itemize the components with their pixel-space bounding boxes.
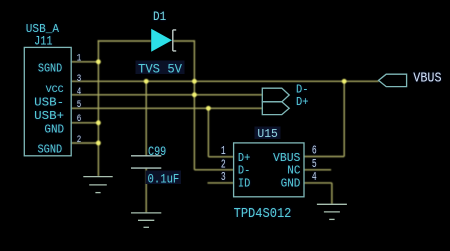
- node pin2/bus junction: [96, 141, 101, 146]
- svg-text:1: 1: [221, 144, 226, 158]
- svg-text:J11: J11: [34, 35, 53, 49]
- svg-text:USB-: USB-: [34, 96, 64, 109]
- wire anode feed horizontal: [98, 40, 152, 42]
- connector J11 box: [24, 47, 71, 155]
- svg-text:2: 2: [77, 135, 82, 146]
- svg-text:ID: ID: [238, 176, 250, 190]
- svg-text:D+: D+: [296, 96, 309, 109]
- wire U15 pin6 vertical: [343, 81, 345, 156]
- node C99/VBUS junction: [144, 79, 149, 84]
- svg-text:NC: NC: [287, 163, 300, 177]
- svg-text:4: 4: [77, 87, 82, 98]
- wire U15 pin4 ground vertical: [331, 183, 333, 204]
- wire U15 pin6 stub: [304, 156, 344, 158]
- capacitor C99: [131, 156, 161, 168]
- svg-text:USB+: USB+: [34, 110, 64, 123]
- wire D+ net horizontal: [71, 107, 262, 109]
- svg-text:1: 1: [77, 54, 82, 65]
- wire D- net horizontal: [71, 94, 262, 96]
- svg-text:6: 6: [77, 114, 82, 125]
- svg-text:GND: GND: [44, 123, 64, 137]
- svg-text:6: 6: [312, 144, 317, 158]
- label TVS 5V: [136, 61, 185, 75]
- wire J11 pin1 stub: [71, 61, 98, 63]
- wire U15 pin1 vertical: [207, 108, 209, 157]
- ground (under connector): [83, 177, 112, 193]
- svg-text:0.1uF: 0.1uF: [148, 173, 180, 187]
- svg-text:TVS 5V: TVS 5V: [138, 62, 182, 77]
- node D-/pin2 junction: [192, 92, 197, 97]
- svg-text:3: 3: [77, 74, 82, 85]
- junction dots: [96, 59, 347, 145]
- wire cathode to corner: [173, 40, 194, 42]
- wire U15 pin3 stub: [208, 182, 234, 184]
- node cathode/VBUS junction: [192, 79, 197, 84]
- node pin6/VBUS junction: [342, 79, 347, 84]
- svg-text:VBUS: VBUS: [413, 71, 441, 86]
- wire VBUS net horizontal: [71, 80, 379, 82]
- svg-text:SGND: SGND: [38, 143, 63, 156]
- label 0.1uF: [146, 171, 182, 185]
- svg-text:TPD4S012: TPD4S012: [234, 207, 292, 222]
- svg-text:3: 3: [221, 170, 226, 184]
- node D+/pin1 junction: [206, 106, 211, 111]
- svg-text:U15: U15: [257, 128, 278, 141]
- diode D1: [151, 29, 176, 52]
- op-amp U15 box: [234, 143, 304, 197]
- wire U15 pin5 stub: [304, 169, 331, 171]
- svg-text:4: 4: [312, 170, 317, 184]
- wire C99 top vertical: [145, 81, 147, 155]
- wire U15 pin4 stub: [304, 182, 332, 184]
- svg-text:GND: GND: [281, 176, 301, 190]
- wire left vertical bus: [97, 40, 99, 176]
- svg-text:SGND: SGND: [38, 63, 62, 76]
- wire: [71, 40, 379, 212]
- svg-text:D-: D-: [296, 83, 309, 96]
- wire J11 pin6 stub: [71, 122, 98, 124]
- svg-text:USB_A: USB_A: [26, 22, 60, 36]
- wire U15 pin2 stub: [194, 169, 233, 171]
- wire cathode/U15 pin2 vertical: [193, 40, 195, 170]
- node pin6/bus junction: [96, 120, 101, 125]
- port VBUS: [379, 74, 407, 86]
- svg-text:D1: D1: [153, 9, 166, 24]
- svg-text:C99: C99: [148, 145, 166, 159]
- node pin1/bus junction: [96, 59, 101, 64]
- ground (under C99): [131, 213, 161, 227]
- svg-text:D-: D-: [238, 163, 250, 177]
- wire U15 pin1 stub: [208, 156, 233, 158]
- wire J11 pin2 stub: [71, 142, 98, 144]
- ground (under U15 pin4): [317, 204, 347, 219]
- label U15: [255, 127, 281, 140]
- port D+: [262, 102, 289, 115]
- wire C99 bottom vertical: [145, 168, 147, 212]
- svg-text:5: 5: [77, 100, 82, 111]
- port D-: [262, 88, 289, 102]
- svg-text:VCC: VCC: [46, 84, 64, 96]
